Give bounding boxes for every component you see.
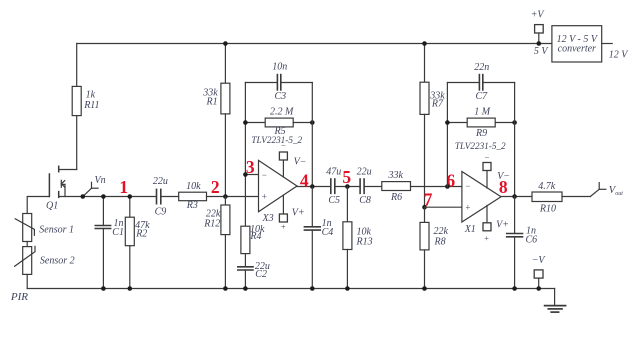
- resistor R3: [179, 192, 259, 201]
- label R8 value: [434, 226, 449, 247]
- svg-text:47u: 47u: [326, 167, 341, 178]
- resistor R4: [241, 226, 250, 267]
- junction node 2: [223, 194, 228, 199]
- op-amp X1: [462, 172, 501, 223]
- label X1: [464, 224, 476, 235]
- svg-text:R3: R3: [186, 200, 198, 211]
- label X1 V+: [496, 220, 509, 231]
- junction C4 bottom: [310, 286, 315, 291]
- wire X3 minus input: [245, 174, 258, 176]
- label R10 value: [538, 181, 556, 215]
- svg-text:+V: +V: [531, 10, 546, 21]
- wire main line stage1: [59, 196, 156, 198]
- label X3 V- pin minus: [281, 140, 287, 150]
- capacitor C5: [331, 179, 360, 193]
- svg-text:−: −: [261, 170, 267, 180]
- label +V: [531, 10, 546, 21]
- junction C6 bottom: [512, 286, 517, 291]
- label X1 V-: [497, 171, 510, 182]
- node 5: [342, 167, 351, 187]
- svg-text:+: +: [280, 221, 286, 231]
- label R1 value: [202, 88, 218, 108]
- label X1 plus input: [465, 203, 471, 213]
- label R13 value: [356, 226, 373, 247]
- label R9 value: [474, 107, 491, 139]
- power -V pin: [534, 270, 543, 289]
- label PIR: [10, 291, 28, 303]
- svg-text:R9: R9: [475, 128, 487, 139]
- resistor R11: [72, 44, 81, 170]
- capacitor C4: [304, 187, 320, 289]
- junction probe Vn: [81, 194, 86, 199]
- junction R1 top rail: [223, 41, 228, 46]
- sensor Sensor1: [15, 214, 34, 242]
- label converter: [557, 34, 599, 55]
- resistor R9 feedback: [447, 118, 514, 127]
- label X1 minus input: [465, 181, 471, 191]
- label X1 V+ pin plus: [484, 233, 490, 243]
- pin X1 V+: [483, 206, 491, 231]
- converter box: [552, 26, 602, 62]
- svg-text:R12: R12: [203, 218, 220, 229]
- resistor R2: [125, 197, 134, 289]
- wire X1 plus input: [425, 206, 462, 208]
- junction node 8: [512, 194, 517, 199]
- label X3 TLV2231-5_2: [251, 135, 302, 145]
- capacitor C9: [157, 189, 179, 203]
- svg-text:C1: C1: [112, 227, 124, 238]
- junction R12 bottom: [223, 286, 228, 291]
- junction C1 bottom: [101, 286, 106, 291]
- svg-text:10n: 10n: [272, 62, 287, 73]
- svg-text:R1: R1: [206, 97, 218, 108]
- svg-text:Vn: Vn: [95, 175, 106, 186]
- node 8: [499, 177, 508, 197]
- svg-text:R2: R2: [135, 229, 147, 240]
- junction C2 bottom: [243, 286, 248, 291]
- wire node6 vertical: [446, 83, 448, 187]
- node 4: [300, 170, 309, 190]
- svg-text:C6: C6: [526, 235, 538, 246]
- wire bottom ground rail: [27, 288, 554, 290]
- svg-text:R8: R8: [434, 236, 446, 247]
- junction node 6: [445, 184, 450, 189]
- resistor R12: [221, 197, 230, 289]
- svg-text:out: out: [615, 191, 623, 197]
- svg-text:22u: 22u: [357, 167, 372, 178]
- svg-text:V+: V+: [496, 220, 509, 231]
- svg-text:5 V: 5 V: [534, 46, 550, 57]
- svg-text:+: +: [484, 233, 490, 243]
- svg-text:2: 2: [211, 177, 220, 197]
- label C7 value: [474, 62, 489, 102]
- svg-text:TLV2231-5_2: TLV2231-5_2: [251, 135, 302, 145]
- junction R8 bottom: [422, 286, 427, 291]
- wire sensor link: [26, 242, 28, 247]
- resistor R13: [343, 187, 352, 289]
- label X1 V- pin minus: [484, 152, 490, 162]
- wire sensor2 to ground rail: [26, 274, 28, 288]
- wire +5V top rail: [77, 43, 552, 45]
- svg-text:1: 1: [119, 177, 128, 197]
- label X3: [262, 213, 274, 224]
- label R12 value: [203, 208, 221, 229]
- label R4 value: [249, 224, 265, 242]
- svg-text:1k: 1k: [86, 90, 96, 101]
- svg-text:X1: X1: [464, 224, 476, 235]
- label C8 value: [357, 167, 372, 207]
- svg-text:C3: C3: [275, 91, 287, 102]
- pin X1 V-: [483, 163, 491, 189]
- svg-text:V+: V+: [292, 207, 305, 218]
- label Vn: [95, 175, 106, 186]
- label R5 value: [270, 107, 294, 138]
- junction R9 right: [512, 120, 517, 125]
- svg-text:5: 5: [342, 167, 351, 187]
- label R2 value: [135, 220, 150, 240]
- label C6 value: [526, 226, 538, 246]
- label 12 V: [609, 49, 630, 60]
- node 7: [424, 189, 433, 209]
- label C3 value: [272, 62, 287, 103]
- svg-text:C7: C7: [476, 91, 489, 102]
- label C5 value: [326, 167, 341, 207]
- wire feedback right vertical: [311, 83, 313, 187]
- node 2: [211, 177, 220, 197]
- junction C1 top: [101, 194, 106, 199]
- junction R13 bottom: [345, 286, 350, 291]
- svg-text:V−: V−: [294, 157, 307, 168]
- junction +V rail: [537, 41, 542, 46]
- svg-text:+: +: [261, 191, 267, 201]
- label X3 V+ pin plus: [280, 221, 286, 231]
- svg-text:12 V: 12 V: [609, 49, 630, 60]
- svg-text:R7: R7: [431, 99, 444, 110]
- svg-text:+: +: [465, 203, 471, 213]
- power +V pin: [535, 25, 544, 44]
- junction node 5: [345, 184, 350, 189]
- junction node 7: [422, 205, 427, 210]
- svg-text:4.7k: 4.7k: [538, 181, 556, 192]
- probe Vout: [590, 183, 606, 197]
- label X3 V-: [294, 157, 307, 168]
- svg-text:converter: converter: [558, 44, 596, 55]
- svg-text:R4: R4: [249, 231, 261, 242]
- svg-text:C2: C2: [255, 269, 267, 280]
- label R11 value: [83, 90, 99, 112]
- svg-text:R10: R10: [539, 204, 556, 215]
- label R3 value: [186, 181, 201, 211]
- svg-text:8: 8: [499, 177, 508, 197]
- pin X3 V-: [279, 152, 287, 177]
- op-amp X3: [259, 160, 298, 211]
- capacitor C8: [360, 179, 382, 193]
- label C4 value: [322, 218, 334, 238]
- node 6: [446, 170, 455, 190]
- junction R5 left: [243, 120, 248, 125]
- resistor R10: [532, 192, 590, 202]
- svg-text:C9: C9: [155, 207, 167, 218]
- pin X3 V+: [279, 195, 287, 222]
- svg-text:33k: 33k: [388, 170, 404, 181]
- svg-text:Q1: Q1: [46, 201, 58, 212]
- capacitor C3 feedback: [245, 75, 312, 90]
- probe Vn: [83, 182, 98, 196]
- resistor R6: [382, 182, 462, 191]
- label X1 TLV2231-5_2: [455, 141, 506, 151]
- label Vout: [609, 185, 624, 197]
- svg-text:−V: −V: [532, 255, 547, 266]
- label C1 value: [112, 218, 124, 238]
- svg-text:C5: C5: [328, 195, 340, 206]
- svg-text:C4: C4: [322, 227, 334, 238]
- resistor R7: [420, 44, 429, 208]
- svg-text:R13: R13: [356, 237, 373, 248]
- junction R2 top: [128, 194, 133, 199]
- junction R9 left: [445, 120, 450, 125]
- capacitor C7 feedback: [447, 75, 514, 90]
- node 3: [246, 157, 255, 177]
- resistor R5 feedback: [245, 118, 312, 127]
- sensor Sensor2: [15, 246, 35, 274]
- svg-text:R6: R6: [390, 192, 402, 203]
- svg-text:3: 3: [246, 157, 255, 177]
- svg-text:10k: 10k: [186, 181, 201, 192]
- wire Q1 drain: [59, 169, 76, 171]
- label Sensor 2: [40, 255, 75, 266]
- ground: [545, 289, 566, 313]
- label Q1: [46, 201, 58, 212]
- wire X3 output: [297, 186, 331, 188]
- capacitor C2: [238, 267, 253, 289]
- junction -V rail: [536, 286, 541, 291]
- wire X1 output: [501, 196, 532, 198]
- svg-text:C8: C8: [359, 195, 371, 206]
- svg-text:R11: R11: [83, 100, 99, 111]
- label R6 value: [388, 170, 404, 203]
- svg-text:PIR: PIR: [10, 291, 28, 303]
- svg-text:22n: 22n: [474, 62, 489, 73]
- svg-text:TLV2231-5_2: TLV2231-5_2: [455, 141, 506, 151]
- label C2 value: [255, 261, 270, 280]
- junction R2 bottom: [128, 286, 133, 291]
- junction node 3: [243, 172, 248, 177]
- label 5 V: [534, 46, 550, 57]
- svg-text:1 M: 1 M: [474, 107, 491, 118]
- svg-text:−: −: [465, 181, 471, 191]
- svg-text:2.2 M: 2.2 M: [270, 107, 294, 118]
- svg-text:Sensor 1: Sensor 1: [39, 225, 74, 236]
- label X3 plus input: [261, 191, 267, 201]
- wire feedback2 right vertical: [514, 83, 516, 197]
- node 1: [119, 177, 128, 197]
- capacitor C1: [95, 197, 110, 289]
- transistor Q1: [49, 166, 65, 197]
- resistor R1: [221, 44, 230, 197]
- label Sensor 1: [39, 225, 74, 236]
- svg-text:4: 4: [300, 170, 309, 190]
- wire Q1 gate to sensors: [27, 197, 49, 214]
- svg-text:X3: X3: [262, 213, 274, 224]
- wire node3 vertical: [244, 83, 246, 227]
- junction R5 right: [310, 120, 315, 125]
- capacitor C6: [507, 197, 523, 289]
- resistor R8: [420, 207, 429, 288]
- wire converter 12V: [602, 43, 613, 45]
- label -V: [532, 255, 547, 266]
- label R7 value: [429, 90, 445, 109]
- svg-text:−: −: [281, 140, 287, 150]
- svg-text:Sensor 2: Sensor 2: [40, 255, 75, 266]
- label X3 minus input: [261, 170, 267, 180]
- label C9 value: [153, 176, 168, 218]
- junction R7 top rail: [422, 41, 427, 46]
- label X3 V+: [292, 207, 305, 218]
- junction node 4: [310, 184, 315, 189]
- svg-text:22u: 22u: [153, 176, 168, 187]
- svg-text:−: −: [484, 152, 490, 162]
